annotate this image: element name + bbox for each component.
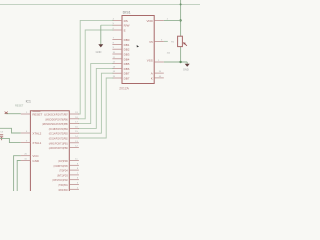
svg-text:(OC0B/T1)PD5: (OC0B/T1)PD5 bbox=[54, 164, 68, 168]
svg-text:(MISO/DO/PCINT6)PB6: (MISO/DO/PCINT6)PB6 bbox=[45, 117, 68, 121]
IC1 pin 12 PB0 bbox=[49, 146, 79, 151]
LCD pin 14 DB7 bbox=[112, 71, 129, 76]
LCD pin 3 V5 bbox=[149, 39, 164, 44]
svg-text:DB7: DB7 bbox=[124, 72, 130, 76]
ground symbol GND at R/W bbox=[96, 25, 104, 54]
svg-text:(OC1A/PCINT3)PB3: (OC1A/PCINT3)PB3 bbox=[49, 132, 68, 136]
wire net DB5-PB4 bbox=[78, 68, 114, 128]
svg-text:GND: GND bbox=[96, 50, 102, 54]
LCD pin 5 R/W bbox=[112, 23, 129, 28]
IC1 pin 20 VCC bbox=[21, 154, 40, 159]
svg-text:A: A bbox=[151, 72, 153, 76]
svg-text:(RXD)PD0: (RXD)PD0 bbox=[58, 188, 68, 191]
IC1 pin 15 PB3 bbox=[49, 131, 79, 136]
junction rail bbox=[180, 3, 182, 5]
LCD pin 15 A bbox=[151, 71, 164, 76]
wire net DB4-PB5 bbox=[78, 64, 114, 124]
wire VCC rail top bbox=[0, 3, 200, 5]
IC1 pin 10 GND bbox=[21, 159, 40, 164]
svg-text:(ICP)PD6: (ICP)PD6 bbox=[58, 159, 68, 163]
IC1 pin 5 XTAL1 bbox=[21, 141, 42, 146]
IC1 pin 8 PD4 bbox=[59, 168, 79, 173]
svg-text:RESET: RESET bbox=[15, 105, 24, 108]
svg-text:(AIN0/PCINT0)PB0: (AIN0/PCINT0)PB0 bbox=[49, 146, 68, 150]
svg-text:2012A: 2012A bbox=[119, 86, 129, 90]
wire net E-PB6 bbox=[78, 30, 114, 119]
IC1 pin 1 RESET bbox=[21, 112, 43, 117]
LCD pin 9 DB2 bbox=[112, 47, 129, 52]
LCD pin 16 K bbox=[151, 76, 164, 81]
IC1 pin 19 PB7 bbox=[44, 112, 79, 117]
capacitor C3 fragment bbox=[0, 135, 3, 140]
svg-text:RS: RS bbox=[124, 19, 128, 23]
LCD pin 8 DB1 bbox=[112, 42, 129, 47]
svg-text:VSS: VSS bbox=[147, 59, 153, 63]
IC1 pin 13 PB1 bbox=[49, 141, 79, 146]
svg-text:(AIN1/PCINT1)PB1: (AIN1/PCINT1)PB1 bbox=[49, 141, 68, 145]
svg-text:DB0: DB0 bbox=[124, 38, 130, 42]
svg-text:GND: GND bbox=[183, 68, 189, 72]
svg-text:VDD: VDD bbox=[146, 19, 153, 23]
LCD pin 11 DB4 bbox=[112, 57, 129, 62]
LCD pin 6 E bbox=[112, 28, 125, 33]
IC1 pin 17 PB5 bbox=[42, 122, 79, 127]
wire V5 bbox=[164, 40, 168, 42]
svg-text:DB6: DB6 bbox=[124, 67, 130, 71]
svg-text:K: K bbox=[151, 76, 153, 80]
LCD pin 4 RS bbox=[112, 18, 127, 23]
LCD pin 12 DB5 bbox=[112, 62, 129, 67]
wire GND down bbox=[17, 161, 21, 192]
svg-text:(OC0A/PCINT2)PB2: (OC0A/PCINT2)PB2 bbox=[49, 137, 68, 141]
cursor mark bbox=[137, 45, 139, 47]
IC1 pin 4 XTAL2 bbox=[21, 131, 42, 136]
LCD pin 1 VSS bbox=[147, 59, 164, 63]
wire net DB6-PB3 bbox=[78, 73, 114, 133]
wire RESET bbox=[6, 113, 21, 115]
potentiometer R1 body bbox=[178, 36, 183, 46]
svg-text:R/W: R/W bbox=[124, 24, 130, 28]
svg-text:RESET: RESET bbox=[32, 113, 42, 117]
junction VDD bbox=[179, 19, 181, 21]
wire net RS-PB7 bbox=[78, 20, 114, 114]
svg-text:(TXD)PD1: (TXD)PD1 bbox=[58, 183, 68, 187]
svg-text:(OC1B/PCINT4)PB4: (OC1B/PCINT4)PB4 bbox=[49, 127, 68, 131]
ground symbol GND right bbox=[183, 62, 190, 72]
microcontroller IC1 box bbox=[30, 111, 69, 191]
svg-text:(MOSI/DI/SDA/PCINT5)PB5: (MOSI/DI/SDA/PCINT5)PB5 bbox=[42, 122, 68, 126]
IC1 pin 18 PB6 bbox=[45, 117, 79, 122]
LCD pin 2 VDD bbox=[146, 18, 168, 23]
wire end tick bbox=[5, 112, 8, 114]
wire VSS-GND bbox=[164, 61, 187, 63]
IC1 pin 14 PB2 bbox=[49, 136, 79, 141]
svg-text:(INT0/XCK)PD2: (INT0/XCK)PD2 bbox=[52, 178, 68, 182]
svg-text:VCC: VCC bbox=[32, 154, 39, 158]
LCD pin 10 DB3 bbox=[112, 52, 129, 57]
svg-text:DB3: DB3 bbox=[124, 53, 130, 57]
svg-text:DB7: DB7 bbox=[124, 77, 130, 81]
LCD display DIS1 box bbox=[122, 16, 154, 84]
IC1 pin 9 PD5 bbox=[54, 163, 79, 168]
LCD pin 7 DB0 bbox=[112, 38, 129, 43]
wire VCC down bbox=[14, 156, 21, 191]
svg-text:XTAL1: XTAL1 bbox=[32, 141, 41, 145]
svg-text:DB1: DB1 bbox=[124, 43, 130, 47]
IC1 pin 6 PD2 bbox=[52, 178, 79, 183]
wire net DB7-PB2 bbox=[78, 78, 114, 138]
svg-text:XTAL2: XTAL2 bbox=[32, 132, 41, 136]
wire VDD bbox=[164, 19, 181, 21]
svg-text:V5: V5 bbox=[149, 40, 153, 44]
svg-text:(INT1)PD3: (INT1)PD3 bbox=[57, 173, 68, 177]
wire XTAL1 jog bbox=[0, 138, 21, 142]
svg-text:GND: GND bbox=[32, 159, 40, 163]
svg-text:E: E bbox=[124, 29, 126, 33]
LCD pin 13 DB6 bbox=[112, 66, 129, 71]
svg-text:DB4: DB4 bbox=[124, 57, 130, 61]
LCD pin 15 DB7b bbox=[112, 76, 129, 81]
svg-text:(UCSK/SCK/PCINT7)PB7: (UCSK/SCK/PCINT7)PB7 bbox=[44, 113, 68, 117]
IC1 pin 3 PD1 bbox=[58, 183, 79, 188]
wire pot bottom to VSS net bbox=[180, 47, 182, 62]
wire net RW bbox=[101, 24, 114, 26]
IC1 pin 2 PD0 bbox=[58, 187, 79, 192]
svg-text:DB2: DB2 bbox=[124, 48, 130, 52]
IC1 pin 7 PD3 bbox=[57, 173, 79, 178]
junction VSS-pot bbox=[179, 61, 181, 63]
svg-text:IC1: IC1 bbox=[26, 100, 31, 104]
IC1 pin 11 PD6 bbox=[58, 159, 79, 164]
svg-text:DIS1: DIS1 bbox=[123, 10, 131, 14]
IC1 pin 16 PB4 bbox=[49, 126, 79, 130]
potentiometer R1 wiper arrow bbox=[183, 42, 187, 46]
svg-text:(T0)PD4: (T0)PD4 bbox=[59, 169, 68, 173]
wire XTAL2 jog bbox=[0, 128, 21, 133]
wire V+ vertical bbox=[180, 0, 182, 36]
svg-text:DB5: DB5 bbox=[124, 62, 130, 66]
